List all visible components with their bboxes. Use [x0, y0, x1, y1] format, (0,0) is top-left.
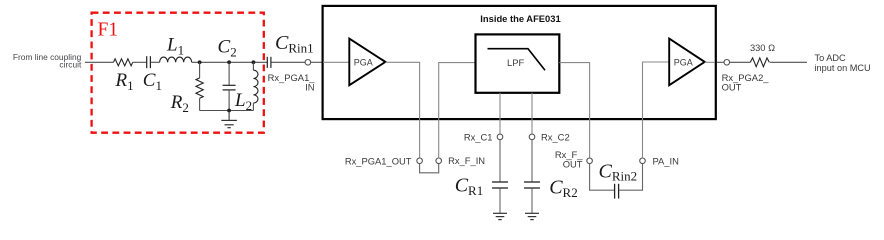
- wire jumper Rx_PGA1_OUT to Rx_F_IN: [420, 163, 439, 172]
- capacitor CRin2: [615, 184, 619, 199]
- wire PA_IN to PGA2: [643, 62, 670, 158]
- LPF block U2: [476, 34, 560, 92]
- label 330 ohm: [750, 43, 775, 53]
- svg-text:Rx_C2: Rx_C2: [541, 131, 570, 142]
- node: To ADC input on MCU label: [815, 53, 871, 73]
- ground (filter): [221, 111, 237, 128]
- label L1: [166, 35, 184, 58]
- capacitor CR2: [524, 140, 540, 213]
- F1 red dashed box: [92, 13, 264, 133]
- resistor R330: [750, 58, 769, 67]
- capacitor CRin1: [267, 57, 271, 68]
- label CRin2: [599, 160, 638, 183]
- pin Rx_C2 circle: [529, 134, 535, 140]
- ground (CR1): [493, 213, 507, 219]
- wire pin to box: [311, 61, 324, 63]
- label Rx_PGA2_OUT: [722, 72, 770, 92]
- pin Rx_F_IN circle: [436, 158, 442, 164]
- op-amp U3 PGA2: [669, 39, 705, 86]
- label Rx_F_IN: [448, 155, 485, 166]
- svg-text:PGA: PGA: [674, 58, 693, 68]
- resistor R2 (vertical): [196, 62, 203, 110]
- wire R1 to C1: [133, 61, 147, 63]
- svg-text:330 Ω: 330 Ω: [750, 43, 775, 53]
- node: From line coupling circuit label: [13, 52, 82, 70]
- wire box edge to pin: [717, 61, 724, 63]
- label L2: [234, 90, 252, 113]
- label CR2: [549, 177, 578, 200]
- capacitor C2 (vertical): [223, 62, 236, 110]
- AFE031 box: [323, 6, 716, 119]
- op-amp U1 PGA1: [349, 39, 385, 86]
- wire Rx_F_OUT down to CRin2: [590, 163, 615, 190]
- resistor R1: [114, 59, 133, 66]
- wire L1 to CRin1: [192, 61, 268, 63]
- capacitor CR1: [492, 140, 508, 214]
- node junction dot B (top of C2): [227, 60, 231, 64]
- wire pin to R330: [729, 61, 750, 63]
- inductor L2 (vertical): [253, 62, 258, 110]
- node junction dot A (top of R2): [198, 60, 202, 64]
- wire R330 to output: [770, 61, 807, 63]
- wire CRin1 to pin: [271, 61, 305, 63]
- svg-text:LPF: LPF: [507, 57, 524, 68]
- capacitor C1: [147, 56, 151, 68]
- svg-text:IN: IN: [305, 81, 314, 92]
- pin Rx_C1 circle: [497, 134, 503, 140]
- title Inside the AFE031: [480, 13, 560, 24]
- wire Rx_F_IN to LPF: [439, 63, 476, 159]
- label R2: [170, 92, 189, 115]
- label Rx_F_OUT: [555, 149, 583, 170]
- wire input to R1: [85, 61, 114, 63]
- inductor L1: [160, 57, 192, 62]
- pin Rx_PGA2_OUT circle: [724, 60, 730, 66]
- svg-text:input on MCU: input on MCU: [815, 63, 871, 73]
- node junction dot D (bottom rail): [227, 109, 231, 113]
- svg-text:Rx_PGA1_OUT: Rx_PGA1_OUT: [345, 155, 412, 166]
- pin Rx_F_OUT circle: [587, 158, 593, 164]
- pin Rx_PGA1_IN circle: [305, 60, 311, 66]
- wire PGA1 out to Rx_PGA1_OUT: [385, 62, 419, 158]
- label C2: [218, 36, 237, 59]
- label Rx_C2: [541, 131, 570, 142]
- svg-text:PA_IN: PA_IN: [653, 155, 679, 166]
- wire CRin2 to PA_IN: [619, 163, 643, 190]
- label PA_IN: [653, 155, 679, 166]
- wire LPF pin Rx_C2: [531, 93, 533, 134]
- svg-text:Inside the AFE031: Inside the AFE031: [480, 13, 560, 24]
- wire LPF out to Rx_F_OUT: [559, 63, 589, 159]
- label F1: [98, 20, 119, 41]
- wire LPF pin Rx_C1: [499, 93, 501, 134]
- label R1: [115, 70, 134, 93]
- wire box edge to PGA1: [323, 61, 349, 63]
- label Rx_PGA1_IN: [268, 72, 316, 92]
- svg-text:circuit: circuit: [59, 60, 82, 70]
- label C1: [143, 70, 162, 93]
- svg-text:To ADC: To ADC: [815, 53, 847, 63]
- svg-text:OUT: OUT: [563, 159, 583, 170]
- wire C1 to L1: [151, 61, 160, 63]
- label Rx_C1: [464, 131, 493, 142]
- label CR1: [455, 175, 484, 198]
- svg-text:PGA: PGA: [354, 58, 373, 68]
- wire bottom rail of filter: [200, 110, 254, 112]
- pin PA_IN circle: [640, 158, 646, 164]
- pin Rx_PGA1_OUT circle: [417, 158, 423, 164]
- label Rx_PGA1_OUT: [345, 155, 412, 166]
- svg-text:OUT: OUT: [722, 81, 742, 92]
- label CRin1: [275, 32, 314, 55]
- svg-text:Rx_F_IN: Rx_F_IN: [448, 155, 485, 166]
- ground (CR2): [525, 213, 539, 219]
- node junction dot C (top of L2): [252, 60, 256, 64]
- wire PGA2 out to box edge: [705, 61, 715, 63]
- svg-text:F1: F1: [98, 20, 119, 41]
- svg-text:Rx_C1: Rx_C1: [464, 131, 493, 142]
